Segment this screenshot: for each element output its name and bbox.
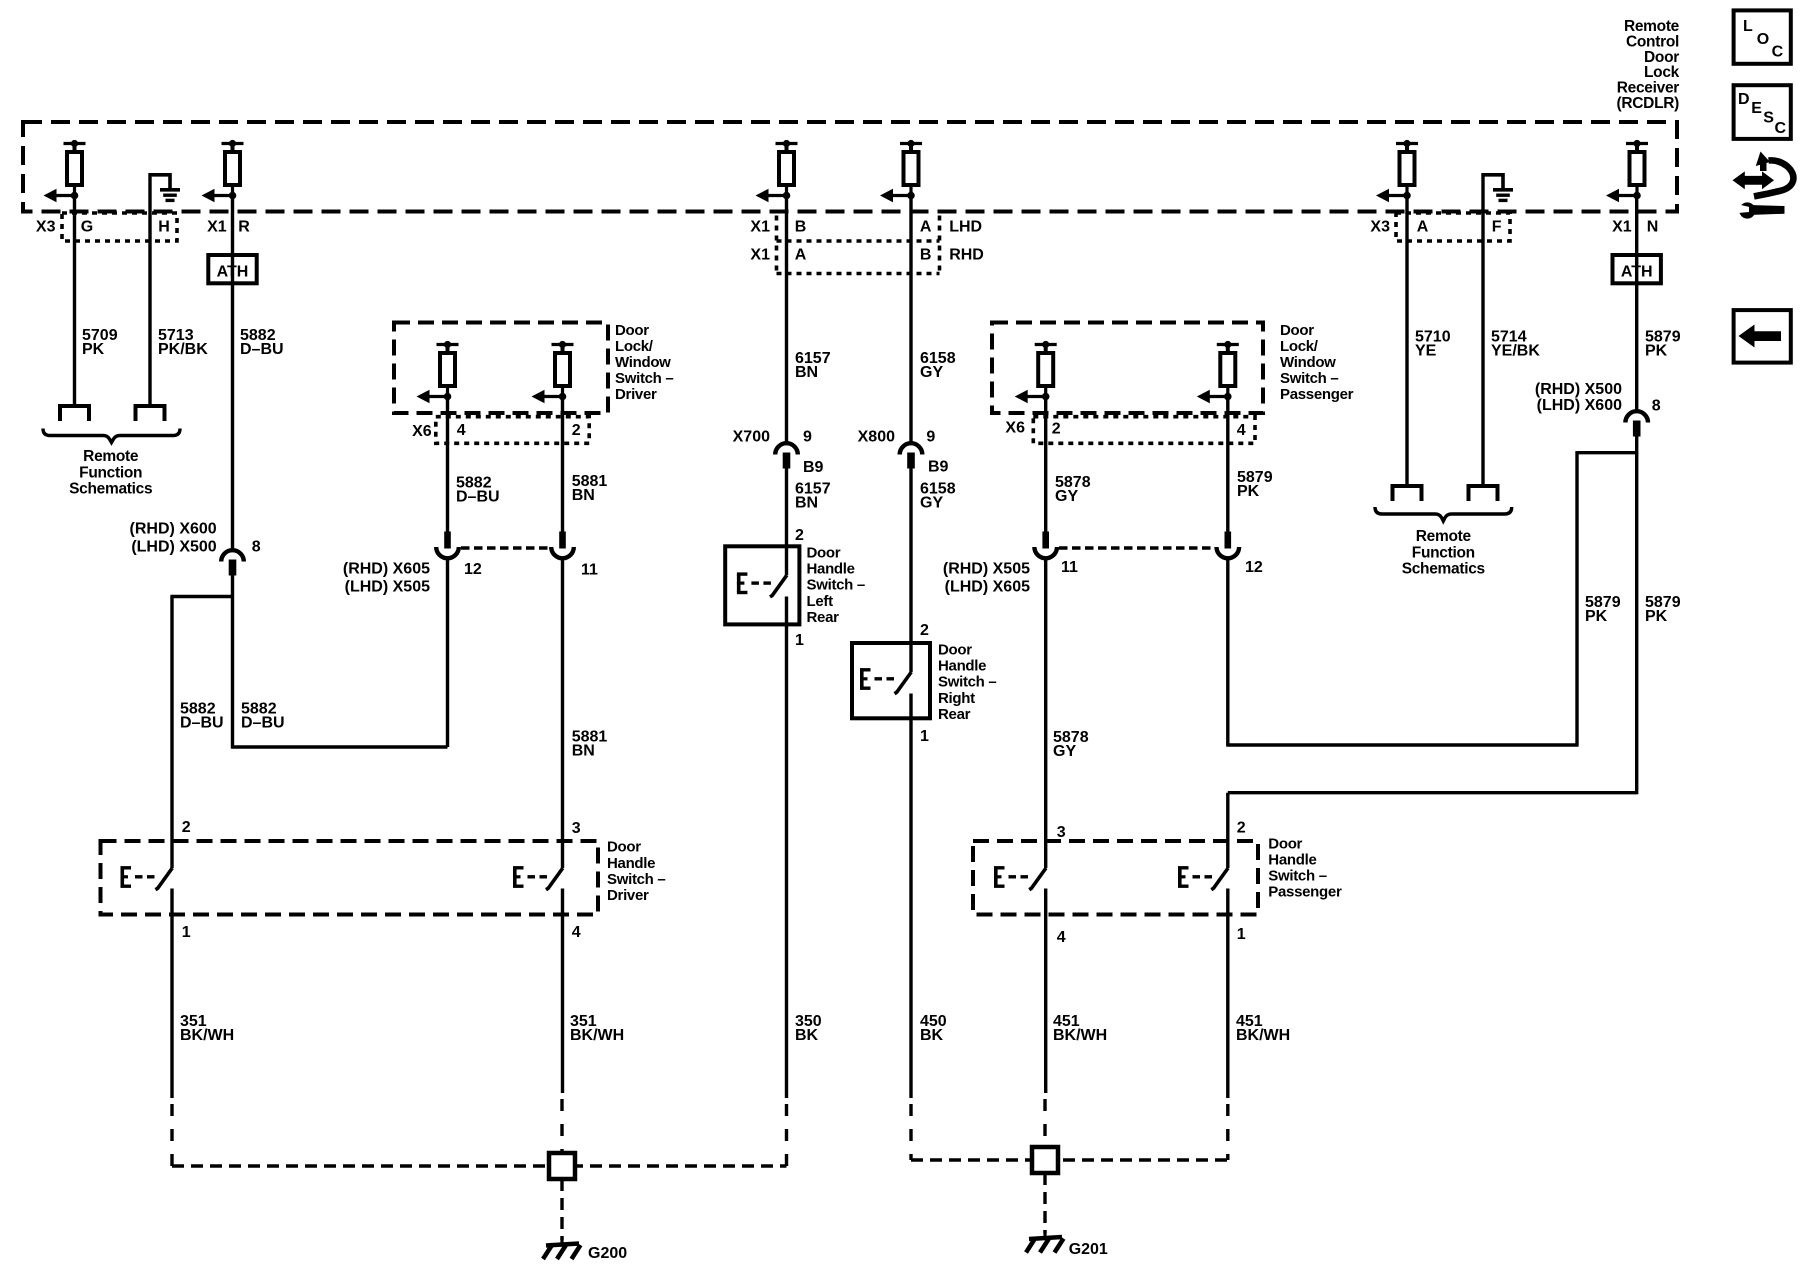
label 5882 D-BU right of pair <box>241 701 285 732</box>
wire 351 BK/WH right solid <box>561 889 564 1094</box>
label connector (RHD) X500 (LHD) X600 <box>1535 381 1622 414</box>
label 5710 YE <box>1415 329 1451 360</box>
svg-text:1: 1 <box>1237 926 1246 943</box>
resistor RCDLR output X1-R <box>202 140 244 202</box>
svg-text:G: G <box>81 219 93 236</box>
wire 6158 GY lower <box>909 468 912 672</box>
resistor passenger lock switch left <box>1015 341 1057 403</box>
switch actuator E right rear <box>860 670 894 688</box>
svg-text:Handle: Handle <box>1268 851 1316 868</box>
inline connector X505 pin 12 <box>436 532 459 559</box>
inline connector X500 pin 8 left <box>221 550 244 575</box>
svg-text:D–BU: D–BU <box>241 715 285 732</box>
svg-text:(RHD) X605: (RHD) X605 <box>343 561 430 578</box>
Door Handle Switch Driver box (dashed) <box>101 841 599 915</box>
svg-text:GY: GY <box>1055 488 1078 505</box>
connector X6 driver dotted box <box>436 417 589 444</box>
svg-text:X6: X6 <box>412 423 432 440</box>
wire 351 BK/WH left solid <box>170 889 173 1099</box>
wire 5882 D-BU down to driver switch pin 2 <box>170 597 173 869</box>
wire 451 BK/WH left solid <box>1044 889 1047 1094</box>
svg-text:Window: Window <box>615 354 671 371</box>
icon navigation arrows with wrench <box>1733 152 1794 219</box>
wire 6158 GY upper <box>909 196 912 443</box>
connector X6 driver labels <box>412 422 581 440</box>
wire 5882 branch corner to driver switch <box>170 595 232 598</box>
ground RCDLR right <box>1493 173 1513 200</box>
Door Handle Switch Right Rear box <box>852 643 930 718</box>
wire 5882 below connector 8 <box>231 575 234 597</box>
svg-text:Right: Right <box>938 690 975 707</box>
svg-text:H: H <box>158 219 170 236</box>
label 5881 BN upper <box>572 473 608 504</box>
svg-text:Passenger: Passenger <box>1268 884 1342 901</box>
wire 451 right dashed tail <box>1226 1098 1229 1160</box>
svg-text:GY: GY <box>920 364 943 381</box>
svg-text:G201: G201 <box>1069 1241 1108 1258</box>
svg-text:3: 3 <box>1057 824 1066 841</box>
label 5882 D-BU mid <box>456 475 500 506</box>
label 5713 PK/BK <box>158 327 208 358</box>
svg-text:C: C <box>1775 120 1787 137</box>
svg-text:(RHD) X505: (RHD) X505 <box>943 561 1030 578</box>
label Door Lock/Window Switch Driver <box>615 322 673 403</box>
svg-text:PK: PK <box>1585 608 1608 625</box>
connector X1 LHD/RHD dotted box <box>777 216 940 274</box>
connector X3 left dotted box <box>62 213 177 241</box>
wire 350 BK from left rear switch <box>785 597 788 1099</box>
ground G201 <box>1026 1231 1064 1253</box>
connector X3 right dotted box <box>1396 213 1510 241</box>
wire 5713 PK/BK <box>148 213 151 406</box>
svg-text:X3: X3 <box>36 219 56 236</box>
svg-text:F: F <box>1492 219 1502 236</box>
svg-text:PK: PK <box>1237 483 1260 500</box>
icon back arrow box <box>1734 310 1791 363</box>
label 350 BK <box>795 1013 822 1044</box>
svg-text:PK: PK <box>1645 608 1668 625</box>
terminal lug 5713 <box>134 406 167 421</box>
svg-text:3: 3 <box>572 820 581 837</box>
ground G200 <box>543 1237 581 1259</box>
svg-text:Switch –: Switch – <box>807 577 865 594</box>
svg-text:Door: Door <box>807 545 841 562</box>
label 5882 D-BU upper <box>240 327 284 358</box>
connector X3 left labels <box>36 219 170 236</box>
svg-text:D–BU: D–BU <box>240 341 284 358</box>
svg-text:X3: X3 <box>1370 219 1390 236</box>
wire G200 drop dashed <box>560 1179 563 1240</box>
svg-text:12: 12 <box>1245 559 1263 576</box>
switch blade passenger right <box>1211 868 1228 890</box>
wire RCDLR internal ground left <box>148 173 151 213</box>
svg-text:4: 4 <box>1237 422 1246 439</box>
svg-text:4: 4 <box>572 924 581 941</box>
wire 5881 BN to driver switch pin 3 <box>561 560 564 869</box>
svg-text:Handle: Handle <box>607 855 655 872</box>
svg-text:YE: YE <box>1415 343 1437 360</box>
ATH symbol left <box>208 255 256 283</box>
svg-text:Lock/: Lock/ <box>1280 338 1319 355</box>
connector X605 dashed link passenger <box>1059 546 1214 550</box>
svg-text:D: D <box>1738 91 1750 108</box>
svg-text:1: 1 <box>182 924 191 941</box>
ATH symbol right <box>1613 255 1661 283</box>
wire 6157 BN upper <box>785 196 788 443</box>
svg-text:YE/BK: YE/BK <box>1491 343 1540 360</box>
label connector (RHD) X505 (LHD) X605 <box>943 561 1030 596</box>
RCDLR title <box>1617 18 1680 112</box>
wire 5879 PK to passenger switch pin 2 <box>1226 793 1229 868</box>
svg-text:GY: GY <box>920 494 943 511</box>
wire 5879 PK loop bottom <box>1228 743 1579 746</box>
label 5879 PK left of loop <box>1585 594 1621 625</box>
svg-text:2: 2 <box>1052 420 1061 437</box>
terminal lug 5710 <box>1391 486 1424 501</box>
svg-text:S: S <box>1763 109 1774 126</box>
svg-text:4: 4 <box>1057 929 1066 946</box>
label connector (RHD) X600 (LHD) X500 <box>130 521 217 556</box>
svg-text:D–BU: D–BU <box>456 489 500 506</box>
splice G200 <box>549 1153 575 1179</box>
Door Lock/Window Switch Passenger box (dashed) <box>992 323 1263 414</box>
Door Handle Switch Passenger box (dashed) <box>973 841 1258 915</box>
svg-text:9: 9 <box>803 428 812 445</box>
svg-text:B: B <box>920 247 932 264</box>
svg-text:Handle: Handle <box>807 561 855 578</box>
svg-text:1: 1 <box>920 728 929 745</box>
svg-text:Driver: Driver <box>607 887 649 904</box>
svg-text:Function: Function <box>79 464 142 481</box>
svg-text:8: 8 <box>252 539 261 556</box>
switch blade driver right <box>546 868 563 890</box>
svg-text:BN: BN <box>572 743 595 760</box>
terminal lug 5709 <box>58 406 91 421</box>
svg-text:BN: BN <box>572 487 595 504</box>
ground bus G200 dashed <box>172 1164 787 1167</box>
svg-text:PK/BK: PK/BK <box>158 341 208 358</box>
svg-text:Switch –: Switch – <box>615 370 673 387</box>
svg-text:2: 2 <box>795 527 804 544</box>
label 451 BK/WH right <box>1236 1013 1290 1044</box>
wire 5879 PK loop top corner <box>1577 451 1637 454</box>
wire 5879 PK branch down <box>1635 453 1638 795</box>
svg-text:GY: GY <box>1053 743 1076 760</box>
svg-text:Schematics: Schematics <box>69 481 152 498</box>
terminal lug 5714 <box>1467 486 1500 501</box>
wire 5882 loop down <box>231 597 234 749</box>
label Door Handle Switch Passenger <box>1268 835 1342 900</box>
resistor driver lock switch right <box>532 341 574 403</box>
wire 5878 GY X6-2 to connector 11 <box>1044 397 1047 532</box>
resistor RCDLR output X1-A <box>880 140 922 202</box>
svg-text:BK: BK <box>920 1027 944 1044</box>
svg-text:(RCDLR): (RCDLR) <box>1617 95 1680 112</box>
inline connector X505 pin 11 <box>551 532 574 559</box>
label 5714 YE/BK <box>1491 329 1540 360</box>
svg-text:X1: X1 <box>750 219 770 236</box>
svg-text:BN: BN <box>795 494 818 511</box>
label Door Handle Switch Right Rear <box>938 642 996 723</box>
label 5879 PK upper <box>1645 329 1681 360</box>
svg-text:BK/WH: BK/WH <box>1053 1027 1107 1044</box>
splice G201 <box>1032 1147 1058 1173</box>
wire 5879 PK branch across <box>1228 791 1637 794</box>
svg-text:PK: PK <box>1645 343 1668 360</box>
switch actuator E passenger left <box>994 868 1028 886</box>
label 6157 BN lower <box>795 480 831 511</box>
wire 5879 PK from X1-N <box>1635 196 1638 412</box>
svg-text:Lock/: Lock/ <box>615 338 654 355</box>
svg-text:(RHD) X600: (RHD) X600 <box>130 521 217 538</box>
svg-text:N: N <box>1647 219 1659 236</box>
Door Lock/Window Switch Driver box (dashed) <box>394 323 608 414</box>
RCDLR module box (dashed) <box>23 122 1677 212</box>
ground bus G201 dashed <box>911 1158 1228 1161</box>
svg-text:RHD: RHD <box>949 247 984 264</box>
label 5879 PK right of loop <box>1645 594 1681 625</box>
svg-text:2: 2 <box>182 819 191 836</box>
wire 5882 D-BU from X1-R through ATH <box>231 196 234 550</box>
svg-text:BK/WH: BK/WH <box>180 1027 234 1044</box>
ground RCDLR left <box>160 173 180 200</box>
wire 450 BK from right rear switch <box>909 694 912 1099</box>
svg-text:Driver: Driver <box>615 386 657 403</box>
svg-text:BK/WH: BK/WH <box>1236 1027 1290 1044</box>
svg-text:(LHD) X600: (LHD) X600 <box>1537 397 1622 414</box>
switch blade driver left <box>156 868 173 890</box>
svg-text:4: 4 <box>457 422 466 439</box>
wire 6157 BN lower <box>785 468 788 575</box>
svg-text:D–BU: D–BU <box>180 715 224 732</box>
label connector (RHD) X605 (LHD) X505 <box>343 561 430 596</box>
label 351 BK/WH left <box>180 1013 234 1044</box>
svg-text:A: A <box>920 219 932 236</box>
wire 5879 PK X6-4 to connector 12 <box>1226 397 1229 532</box>
svg-text:(LHD) X605: (LHD) X605 <box>945 579 1030 596</box>
svg-text:B9: B9 <box>803 459 824 476</box>
wire 5879 PK under connector 8 right <box>1635 436 1638 454</box>
svg-text:Switch –: Switch – <box>607 871 665 888</box>
svg-text:A: A <box>1417 219 1429 236</box>
svg-text:8: 8 <box>1652 398 1661 415</box>
label 5878 GY lower <box>1053 729 1089 760</box>
svg-text:Door: Door <box>1268 835 1302 852</box>
svg-text:Passenger: Passenger <box>1280 386 1354 403</box>
resistor RCDLR output X1-B <box>756 140 798 202</box>
svg-text:Door: Door <box>615 322 649 339</box>
svg-text:L: L <box>1743 18 1753 35</box>
connector X505 dashed link driver <box>461 546 549 550</box>
wire 351 left dashed tail <box>170 1098 173 1166</box>
wire 5714 YE/BK <box>1481 213 1484 486</box>
wire 5878 GY to passenger switch pin 3 <box>1044 560 1047 869</box>
wire 5881 BN X6-2 to connector 11 <box>561 397 564 533</box>
icon LOC box <box>1734 10 1791 63</box>
svg-text:PK: PK <box>82 341 105 358</box>
svg-text:1: 1 <box>795 632 804 649</box>
label 5709 PK <box>82 327 118 358</box>
svg-text:O: O <box>1757 31 1769 48</box>
svg-text:Remote: Remote <box>1416 528 1472 545</box>
svg-text:BK: BK <box>795 1027 819 1044</box>
label Remote Function Schematics left <box>69 448 152 498</box>
connector X3 right labels <box>1370 219 1501 236</box>
label 6158 GY upper <box>920 350 956 381</box>
brace Remote Function Schematics right <box>1375 507 1512 521</box>
svg-text:A: A <box>795 247 807 264</box>
svg-text:B9: B9 <box>928 459 949 476</box>
svg-text:Door: Door <box>607 839 641 856</box>
resistor RCDLR output X3-G <box>44 140 86 202</box>
svg-text:2: 2 <box>920 622 929 639</box>
switch blade right rear <box>895 672 912 694</box>
wire 5710 YE <box>1405 196 1408 487</box>
Door Handle Switch Left Rear box <box>725 546 799 624</box>
switch blade left rear <box>770 575 787 597</box>
wire 5879 PK loop up <box>1575 451 1578 745</box>
switch actuator E left rear <box>737 574 771 592</box>
svg-text:(RHD) X500: (RHD) X500 <box>1535 381 1622 398</box>
label 5879 PK col upper <box>1237 469 1273 500</box>
wire 350 dashed tail <box>785 1098 788 1166</box>
resistor RCDLR output X3-A <box>1376 140 1418 202</box>
svg-text:X1: X1 <box>207 219 227 236</box>
svg-text:X6: X6 <box>1005 420 1025 437</box>
svg-text:Switch –: Switch – <box>1268 868 1326 885</box>
label Door Handle Switch Driver <box>607 839 665 904</box>
connector X1 row RHD labels <box>750 247 983 264</box>
svg-text:Window: Window <box>1280 354 1336 371</box>
resistor passenger lock switch right <box>1197 341 1239 403</box>
svg-text:Rear: Rear <box>938 706 971 723</box>
svg-text:Rear: Rear <box>807 609 840 626</box>
svg-text:2: 2 <box>572 422 581 439</box>
icon DESC box <box>1734 85 1791 139</box>
inline connector X605 pin 12 <box>1217 532 1240 559</box>
switch actuator E passenger right <box>1178 868 1212 886</box>
svg-text:Switch –: Switch – <box>938 674 996 691</box>
svg-text:(LHD) X505: (LHD) X505 <box>345 579 430 596</box>
svg-text:Remote: Remote <box>83 448 139 465</box>
resistor RCDLR output X1-N <box>1606 140 1648 202</box>
svg-text:G200: G200 <box>588 1245 627 1262</box>
connector X1 row LHD labels <box>750 219 982 236</box>
inline connector X500 pin 8 right <box>1625 411 1648 436</box>
svg-text:Function: Function <box>1412 544 1475 561</box>
label Door Handle Switch Left Rear <box>807 545 865 626</box>
svg-text:C: C <box>1772 43 1784 60</box>
svg-text:LHD: LHD <box>949 219 982 236</box>
label 5878 GY upper <box>1055 474 1091 505</box>
wire 450 dashed tail <box>909 1098 912 1160</box>
svg-text:BK/WH: BK/WH <box>570 1027 624 1044</box>
switch actuator E driver left <box>121 868 155 886</box>
svg-text:(LHD) X500: (LHD) X500 <box>131 539 216 556</box>
svg-text:Handle: Handle <box>938 658 986 675</box>
wire 351 right dashed tail <box>560 1093 563 1155</box>
switch blade passenger left <box>1029 868 1046 890</box>
wire 5879 PK pin12 down <box>1226 560 1229 747</box>
svg-text:Schematics: Schematics <box>1402 561 1485 578</box>
svg-text:BN: BN <box>795 364 818 381</box>
svg-text:Left: Left <box>807 593 834 610</box>
resistor driver lock switch left <box>417 341 459 403</box>
wire 451 left dashed tail <box>1043 1093 1046 1149</box>
svg-text:B: B <box>795 219 807 236</box>
label Door Lock/Window Switch Passenger <box>1280 322 1354 403</box>
label 451 BK/WH left <box>1053 1013 1107 1044</box>
svg-text:11: 11 <box>1061 559 1078 576</box>
connector X1-N labels <box>1612 219 1658 236</box>
connector X1-R labels <box>207 219 250 236</box>
inline connector X605 pin 11 <box>1034 532 1057 559</box>
wire RCDLR internal ground right <box>1481 173 1484 213</box>
svg-text:11: 11 <box>581 562 598 579</box>
wire 5882 loop bottom <box>233 745 448 748</box>
label Remote Function Schematics right <box>1402 528 1485 578</box>
wire G201 drop dashed <box>1043 1173 1046 1233</box>
brace Remote Function Schematics left <box>43 429 180 443</box>
wire 451 BK/WH right solid <box>1226 889 1229 1099</box>
wire 5882 loop up to X505 pin 12 <box>446 560 449 748</box>
wire 5709 PK <box>73 196 76 407</box>
switch actuator E driver right <box>513 868 547 886</box>
svg-text:Door: Door <box>938 642 972 659</box>
svg-text:X700: X700 <box>733 429 770 446</box>
connector X6 passenger dotted box <box>1033 417 1255 444</box>
svg-text:Door: Door <box>1280 322 1314 339</box>
svg-text:R: R <box>238 219 250 236</box>
svg-text:E: E <box>1751 100 1762 117</box>
svg-text:12: 12 <box>464 561 482 578</box>
inline connector X800 pin 9 <box>900 443 923 468</box>
svg-text:X1: X1 <box>750 247 770 264</box>
label 351 BK/WH right <box>570 1013 624 1044</box>
svg-text:2: 2 <box>1237 820 1246 837</box>
svg-text:X1: X1 <box>1612 219 1632 236</box>
svg-text:Switch –: Switch – <box>1280 370 1338 387</box>
wire 5882 D-BU X6-4 to connector 12 <box>446 397 449 532</box>
label 450 BK <box>920 1013 947 1044</box>
svg-text:9: 9 <box>926 428 935 445</box>
label 6158 GY lower <box>920 480 956 511</box>
connector X6 passenger labels <box>1005 420 1245 440</box>
svg-text:X800: X800 <box>858 429 895 446</box>
inline connector X700 pin 9 <box>775 443 798 468</box>
label 6157 BN upper <box>795 350 831 381</box>
label 5882 D-BU left of pair <box>180 701 224 732</box>
label 5881 BN lower <box>572 729 608 760</box>
